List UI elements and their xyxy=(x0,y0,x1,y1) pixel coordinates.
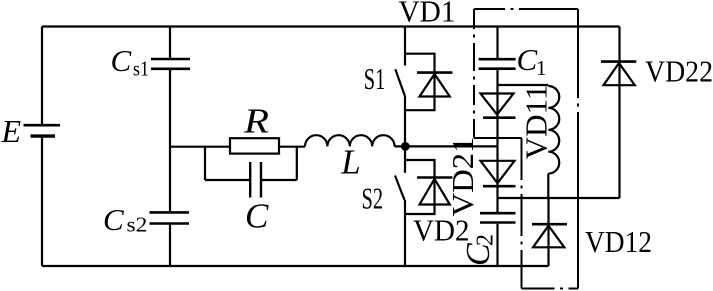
wire Cs column upper xyxy=(169,27,171,59)
diode VD11 triangle xyxy=(481,94,514,115)
snubber boundary dash-dot right edge xyxy=(577,9,579,289)
wire right rail xyxy=(618,27,620,199)
wire Cs column lower xyxy=(169,225,171,267)
capacitor C1 plates xyxy=(479,59,516,68)
wire bus (auxiliary bottom bus) xyxy=(498,197,620,199)
svg-text:R: R xyxy=(243,102,269,141)
switch blade S2 xyxy=(395,176,405,201)
snubber boundary dash-dot left edge of upper cell xyxy=(473,9,475,138)
wire S column bottom xyxy=(404,200,406,266)
diode VD22 bar xyxy=(601,60,636,63)
wire node to coil top xyxy=(498,84,549,86)
wire R to L xyxy=(279,146,305,148)
wire RC parallel branch xyxy=(205,147,297,180)
capacitor C plates xyxy=(250,162,261,198)
svg-text:C: C xyxy=(517,42,538,77)
wire VD12 column xyxy=(547,198,549,266)
diode VD21 bar xyxy=(483,185,516,188)
snubber boundary dash-dot left edge of lower cell xyxy=(521,138,523,289)
wire S2 diode loop xyxy=(405,160,435,214)
diode VD1 triangle xyxy=(420,74,450,97)
svg-text:C: C xyxy=(245,196,269,235)
diode VD21 triangle xyxy=(481,161,515,183)
resistor R1 box xyxy=(230,138,279,153)
wire midpoint to R xyxy=(170,146,230,148)
inductor L humps xyxy=(305,135,395,146)
diode VD12 triangle xyxy=(533,226,564,248)
switch blade S1 xyxy=(395,69,404,95)
diode VD22 triangle xyxy=(604,63,635,85)
wire Cs column middle xyxy=(169,70,171,212)
svg-text:1: 1 xyxy=(536,56,547,80)
battery E short plate xyxy=(31,134,56,137)
capacitor C2 plates xyxy=(480,213,516,222)
svg-text:s1: s1 xyxy=(133,57,149,81)
diode VD2 triangle xyxy=(420,179,450,205)
wire battery column lower xyxy=(41,137,43,266)
svg-text:E: E xyxy=(1,113,22,149)
snubber boundary dash-dot bottom edge of upper cell xyxy=(474,137,522,139)
diode VD2 bar xyxy=(417,176,452,179)
svg-text:2: 2 xyxy=(473,234,499,246)
wire S1 diode loop xyxy=(405,54,435,110)
svg-text:C: C xyxy=(103,202,124,237)
svg-text:VD1: VD1 xyxy=(399,0,456,29)
svg-text:L: L xyxy=(340,142,360,181)
svg-text:VD2: VD2 xyxy=(413,213,470,248)
svg-text:S2: S2 xyxy=(362,181,384,216)
wire battery column upper xyxy=(41,27,43,125)
svg-text:VD11: VD11 xyxy=(519,85,554,160)
capacitor Cs2 plates xyxy=(150,212,190,223)
capacitor Cs1 plates xyxy=(151,59,190,69)
svg-text:VD22: VD22 xyxy=(645,54,713,89)
wire L to node A xyxy=(395,145,498,147)
svg-text:s2: s2 xyxy=(127,213,148,237)
diode VD11 bar xyxy=(483,116,516,119)
wire coil bottom xyxy=(547,174,549,198)
snubber boundary dash-dot bottom edge of lower cell xyxy=(522,288,579,290)
diode VD12 bar xyxy=(532,223,567,226)
wire S column top xyxy=(404,27,406,66)
svg-text:VD21: VD21 xyxy=(445,137,480,217)
svg-text:VD12: VD12 xyxy=(585,224,652,259)
node A junction dot xyxy=(401,142,410,151)
battery E long plate xyxy=(24,124,61,127)
diode VD1 bar xyxy=(417,71,452,74)
wire top rail xyxy=(42,25,620,27)
wire S column middle xyxy=(404,95,406,172)
wire bottom rail xyxy=(42,265,549,267)
svg-text:S1: S1 xyxy=(364,61,386,96)
svg-text:C: C xyxy=(111,43,132,78)
inductor Ls (coil) xyxy=(548,86,559,174)
wire snubber column (C1/VD11/VD21/C2) xyxy=(496,27,498,267)
snubber boundary dash-dot top edge xyxy=(474,8,578,10)
